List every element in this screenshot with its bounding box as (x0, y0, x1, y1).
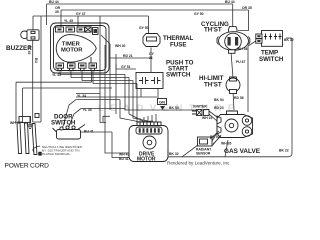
svg-text:BK 32: BK 32 (169, 152, 179, 156)
svg-text:TH'ST: TH'ST (204, 27, 222, 34)
svg-text:TH'ST: TH'ST (204, 82, 222, 89)
svg-text:21: 21 (149, 56, 153, 60)
svg-text:PU 67: PU 67 (236, 60, 246, 64)
svg-text:OR 35: OR 35 (242, 6, 252, 10)
svg-text:GN: GN (159, 100, 165, 105)
svg-text:SWITCH: SWITCH (166, 72, 191, 79)
svg-text:GAS VALVE: GAS VALVE (224, 148, 261, 155)
svg-text:SWITCH: SWITCH (259, 56, 284, 63)
svg-text:BK 54: BK 54 (169, 106, 179, 110)
svg-text:RD 21: RD 21 (123, 54, 133, 58)
svg-text:GY 47: GY 47 (76, 12, 86, 16)
svg-text:WH 40: WH 40 (115, 44, 125, 48)
svg-text:BU 44: BU 44 (49, 0, 59, 4)
svg-text:RD 56: RD 56 (234, 96, 244, 100)
svg-text:BU 41: BU 41 (84, 129, 94, 133)
svg-text:FUSE: FUSE (170, 42, 187, 49)
svg-text:IGNITER: IGNITER (193, 105, 207, 109)
svg-text:BK 54: BK 54 (214, 98, 224, 102)
svg-text:35: 35 (55, 10, 59, 14)
svg-text:MOTOR: MOTOR (61, 48, 83, 54)
svg-text:SWITCH: SWITCH (51, 119, 76, 126)
svg-text:BU 44: BU 44 (225, 0, 235, 4)
svg-text:POWER CORD: POWER CORD (5, 163, 50, 170)
svg-text:YL 45: YL 45 (64, 19, 73, 23)
svg-text:TIMER: TIMER (62, 41, 81, 47)
svg-text:RD 23: RD 23 (214, 106, 224, 110)
svg-text:WH 43: WH 43 (119, 152, 129, 156)
svg-text:Rendered by LeadVenture, Inc.: Rendered by LeadVenture, Inc. (167, 161, 231, 166)
svg-text:GY 50: GY 50 (194, 12, 204, 16)
svg-text:BU: BU (34, 58, 38, 63)
svg-text:WH 38: WH 38 (237, 47, 247, 51)
svg-text:BK 22: BK 22 (279, 149, 289, 153)
svg-text:PK 45: PK 45 (27, 45, 31, 55)
svg-text:GY 51: GY 51 (121, 65, 131, 69)
svg-text:WH: WH (10, 121, 16, 125)
svg-text:GY 50: GY 50 (139, 26, 149, 30)
svg-text:YL 45: YL 45 (52, 73, 61, 77)
svg-text:SENSOR: SENSOR (196, 152, 211, 156)
svg-text:BU 41: BU 41 (119, 157, 129, 161)
svg-text:YL 35: YL 35 (83, 108, 92, 112)
svg-text:PLATED TERMINAL: PLATED TERMINAL (42, 152, 71, 156)
svg-text:WH 26: WH 26 (221, 142, 231, 146)
svg-text:BK 32: BK 32 (284, 38, 294, 42)
svg-text:WH 24: WH 24 (202, 116, 212, 120)
svg-text:BK 52: BK 52 (210, 135, 220, 139)
svg-text:MOTOR: MOTOR (137, 157, 156, 163)
svg-text:YL 34: YL 34 (77, 94, 86, 98)
